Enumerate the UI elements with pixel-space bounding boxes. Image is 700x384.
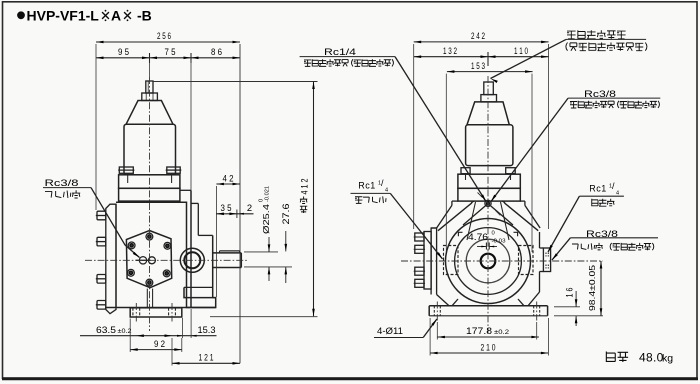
left view rear cover plate bbox=[106, 204, 116, 314]
right view: top eyebolt bbox=[485, 200, 491, 206]
svg-text:1 6: 1 6 bbox=[565, 288, 575, 298]
left view bearing circle bbox=[180, 248, 204, 272]
left view shaft key bbox=[220, 250, 240, 252]
left view relief valve screw tip bbox=[146, 81, 153, 93]
right view: centerlines bbox=[401, 260, 603, 262]
right view: spring housing bbox=[466, 125, 513, 166]
svg-text:15.3: 15.3 bbox=[198, 324, 216, 335]
svg-text:0: 0 bbox=[258, 199, 264, 202]
leader line from screw tip (max412 top ref) bbox=[153, 81, 318, 83]
left view front flange bbox=[180, 189, 191, 191]
bottom dims 63.5 / 15.3 bbox=[80, 335, 217, 337]
svg-text:±0.2: ±0.2 bbox=[494, 329, 509, 336]
left view bearing boss bbox=[198, 234, 212, 236]
svg-text:±0.2: ±0.2 bbox=[118, 328, 132, 335]
svg-text:1 1 0: 1 1 0 bbox=[514, 45, 528, 56]
svg-text:4 1 2: 4 1 2 bbox=[300, 179, 310, 195]
mass label bbox=[606, 352, 615, 363]
svg-text:48.0: 48.0 bbox=[639, 351, 664, 365]
left view valve base nuts bbox=[119, 167, 133, 173]
left view foot hole centerlines bbox=[135, 303, 137, 322]
right view: cartridge circle bbox=[455, 228, 522, 295]
left view drain slot below hexagon bbox=[146, 289, 148, 308]
dimension 98.4 center height bbox=[554, 315, 603, 317]
svg-text:1 5 3: 1 5 3 bbox=[471, 60, 485, 71]
dimension 210 bbox=[430, 352, 548, 354]
title bullet bbox=[18, 12, 25, 19]
svg-text:98.4±0.05: 98.4±0.05 bbox=[587, 265, 597, 311]
svg-text:kg: kg bbox=[662, 353, 673, 365]
leader to drain port bbox=[91, 188, 140, 258]
right view: right boss block bbox=[543, 248, 550, 272]
svg-text:4.76: 4.76 bbox=[468, 232, 488, 242]
right view: taper bbox=[467, 102, 509, 125]
dimension 132 / 110 bbox=[414, 56, 549, 58]
left view main body block bbox=[116, 202, 216, 307]
left view shaft bbox=[213, 252, 242, 254]
svg-text:177.8: 177.8 bbox=[466, 325, 492, 336]
bottom dim 92 bbox=[130, 349, 182, 351]
svg-text:2: 2 bbox=[247, 202, 252, 213]
bottom dim 121 bbox=[172, 362, 240, 364]
right view: valve pad rib lines bbox=[467, 202, 476, 240]
right view: valve base side bolts bbox=[461, 168, 470, 174]
left view relief valve locknut bbox=[142, 93, 158, 101]
left view rear cover bolts bbox=[97, 211, 106, 220]
left view hexagon bolts bbox=[146, 233, 153, 240]
svg-text:2 5 6: 2 5 6 bbox=[157, 30, 171, 41]
right view: dashed discharge port bbox=[444, 246, 459, 275]
right view: dashed suction port bbox=[519, 246, 534, 275]
left view valve base plate bbox=[119, 175, 180, 189]
left view centerlines bbox=[85, 259, 248, 261]
label pressure adjusting screw bbox=[567, 31, 576, 39]
right view: big bore circle bbox=[446, 219, 531, 304]
svg-text:-0.021: -0.021 bbox=[264, 186, 270, 202]
right view: head band stubs bbox=[452, 200, 458, 202]
svg-text:4: 4 bbox=[616, 191, 619, 197]
right view: valve base plate bbox=[458, 174, 520, 188]
right view: locknut bbox=[481, 95, 497, 102]
right view: foot bolt holes bbox=[433, 306, 435, 316]
left view relief valve spring housing bbox=[124, 124, 176, 175]
right view: feet bbox=[429, 305, 547, 307]
right view: shaft circle bbox=[481, 254, 496, 269]
svg-text:3 5: 3 5 bbox=[221, 202, 232, 213]
dimension 27.6 bbox=[285, 231, 287, 251]
dimension dia 25.4 shaft bbox=[244, 251, 278, 253]
left view hexagon cover plate bbox=[126, 231, 171, 288]
dimension 256 top bbox=[96, 41, 240, 43]
svg-text:9 5: 9 5 bbox=[118, 46, 129, 57]
svg-text:4-Ø11: 4-Ø11 bbox=[377, 326, 403, 336]
svg-text:-0.03: -0.03 bbox=[492, 238, 506, 244]
extension lines top dims bbox=[95, 44, 97, 210]
dimension row 95 75 86 bbox=[96, 57, 240, 59]
svg-text:7 5: 7 5 bbox=[165, 46, 176, 57]
svg-text:63.5: 63.5 bbox=[96, 324, 116, 335]
svg-text:1 2 1: 1 2 1 bbox=[199, 352, 214, 363]
right view: valve screw tip bbox=[484, 82, 494, 95]
dimension 153 bbox=[447, 71, 533, 73]
left view foot bbox=[130, 308, 182, 317]
svg-text:2 4 2: 2 4 2 bbox=[471, 30, 485, 41]
svg-text:8 6: 8 6 bbox=[211, 46, 222, 57]
right view: rotor circle bbox=[466, 239, 510, 283]
extension lines right view top bbox=[413, 44, 415, 229]
dimension 35 and 2 bbox=[216, 213, 253, 215]
svg-text:Rc3/8: Rc3/8 bbox=[45, 178, 79, 188]
svg-text:Rc1: Rc1 bbox=[589, 184, 607, 194]
svg-text:HVP-VF1-L: HVP-VF1-L bbox=[27, 7, 100, 23]
svg-text:4 2: 4 2 bbox=[223, 173, 234, 184]
right view: cartridge step corners bbox=[458, 232, 462, 236]
left view center holes bbox=[139, 257, 146, 264]
dimension 16 foot height bbox=[554, 306, 580, 308]
left view relief valve taper bbox=[126, 101, 173, 125]
dimension 242 bbox=[414, 41, 549, 43]
svg-text:9 2: 9 2 bbox=[154, 338, 165, 349]
svg-text:27.6: 27.6 bbox=[281, 204, 291, 225]
svg-text:Rc1/4: Rc1/4 bbox=[324, 47, 356, 57]
right view: octagon shoulder diagonals bbox=[438, 201, 474, 231]
svg-text:Rc1: Rc1 bbox=[358, 180, 376, 190]
svg-text:A: A bbox=[111, 7, 121, 23]
dimension max 412 overall height bbox=[313, 82, 315, 317]
dimension 42 bbox=[216, 183, 240, 185]
svg-text:2 1 0: 2 1 0 bbox=[481, 341, 496, 352]
dimension 177.8 bbox=[437, 336, 539, 338]
right view: left port bolts bbox=[415, 233, 424, 241]
right view: dashed marks in right boss bbox=[545, 253, 547, 257]
svg-text:-B: -B bbox=[137, 7, 152, 23]
svg-text:Ø25.4: Ø25.4 bbox=[261, 204, 271, 234]
svg-text:4: 4 bbox=[385, 188, 388, 194]
svg-text:0: 0 bbox=[492, 230, 495, 236]
right view: left port block bbox=[424, 232, 431, 290]
svg-text:Rc3/8: Rc3/8 bbox=[584, 89, 616, 99]
svg-text:1 3 2: 1 3 2 bbox=[443, 45, 457, 56]
